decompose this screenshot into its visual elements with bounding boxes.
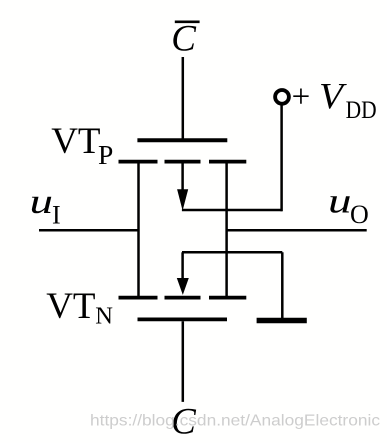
svg-text:I: I [52, 201, 61, 230]
terminal VDD circle [275, 90, 289, 104]
transistor VT_P substrate arrow [177, 162, 188, 211]
wire VT_N bulk to ground [182, 251, 282, 254]
transistor VT_N substrate arrow [177, 252, 189, 295]
transistor VT_P gate bar [137, 138, 227, 142]
svg-text:N: N [95, 303, 113, 330]
wire C-bar to VT_P gate [182, 57, 185, 140]
node uI label [30, 182, 61, 229]
wire uI input [39, 229, 139, 232]
wire ground drop [281, 252, 284, 318]
svg-text:https://blog.csdn.net/AnalogEl: https://blog.csdn.net/AnalogElectronic [90, 413, 380, 430]
node C-bar label [171, 19, 199, 60]
svg-text:+: + [292, 79, 311, 115]
wire drain rail (right vertical) [225, 162, 228, 298]
transistor VT_N channel drain segment [209, 296, 246, 300]
transistor VT_P channel bulk segment [165, 160, 201, 164]
transistor VT_N channel source segment [119, 296, 158, 300]
svg-text:O: O [350, 200, 369, 229]
svg-text:u: u [328, 182, 352, 221]
svg-text:VT: VT [46, 286, 95, 327]
transistor VT_P channel drain segment [209, 160, 246, 164]
ground [257, 318, 307, 324]
label +VDD [292, 76, 377, 124]
svg-text:P: P [98, 139, 113, 170]
wire VDD drop [280, 105, 283, 212]
wire source rail (left vertical) [137, 162, 140, 298]
wire uO output [227, 229, 367, 232]
wire VT_P bulk to VDD [182, 209, 282, 212]
label VT_P [51, 121, 113, 170]
node uO label [328, 182, 369, 229]
transistor VT_N channel bulk segment [165, 296, 201, 300]
transistor VT_P channel source segment [119, 160, 158, 164]
transistor VT_N gate bar [138, 317, 228, 321]
svg-text:DD: DD [346, 97, 377, 124]
label VT_N [46, 286, 113, 330]
svg-text:VT: VT [51, 121, 100, 162]
wire VT_N gate to C [182, 321, 185, 402]
svg-text:C: C [171, 19, 197, 60]
svg-text:u: u [30, 182, 54, 221]
svg-text:V: V [319, 76, 348, 117]
